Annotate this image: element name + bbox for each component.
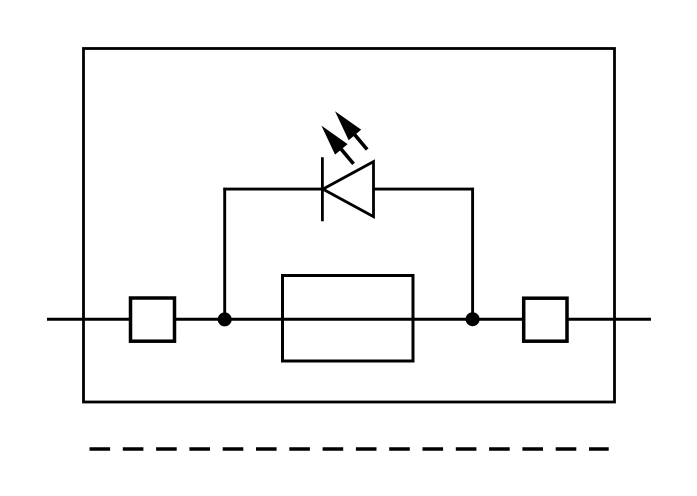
- node A (junction dot left): [218, 312, 232, 326]
- wire: LED branch horizontal (right segment from anode to riser): [374, 188, 475, 191]
- LED D1 triangle (anode): [323, 162, 374, 217]
- enclosure outline (terminal block housing): [84, 49, 615, 403]
- LED D1 cathode bar: [321, 157, 324, 221]
- wire: LED branch horizontal (left segment to cathode bar): [223, 188, 322, 191]
- terminal clamp (left contact square): [131, 298, 175, 341]
- DIN rail (dashed mounting line): [90, 447, 609, 450]
- fuse holder F1 (rectangle on conductor): [283, 276, 414, 362]
- node B (junction dot right): [466, 312, 480, 326]
- wire: right riser from LED branch down to node B: [471, 188, 474, 320]
- terminal clamp (right contact square): [524, 298, 567, 341]
- LED D1 emission arrow (upper right): [329, 106, 374, 155]
- LED D1 emission arrow (lower left): [315, 120, 360, 169]
- wire: left riser from node A to LED branch: [223, 188, 226, 320]
- wire: main feed-through conductor: [47, 318, 651, 321]
